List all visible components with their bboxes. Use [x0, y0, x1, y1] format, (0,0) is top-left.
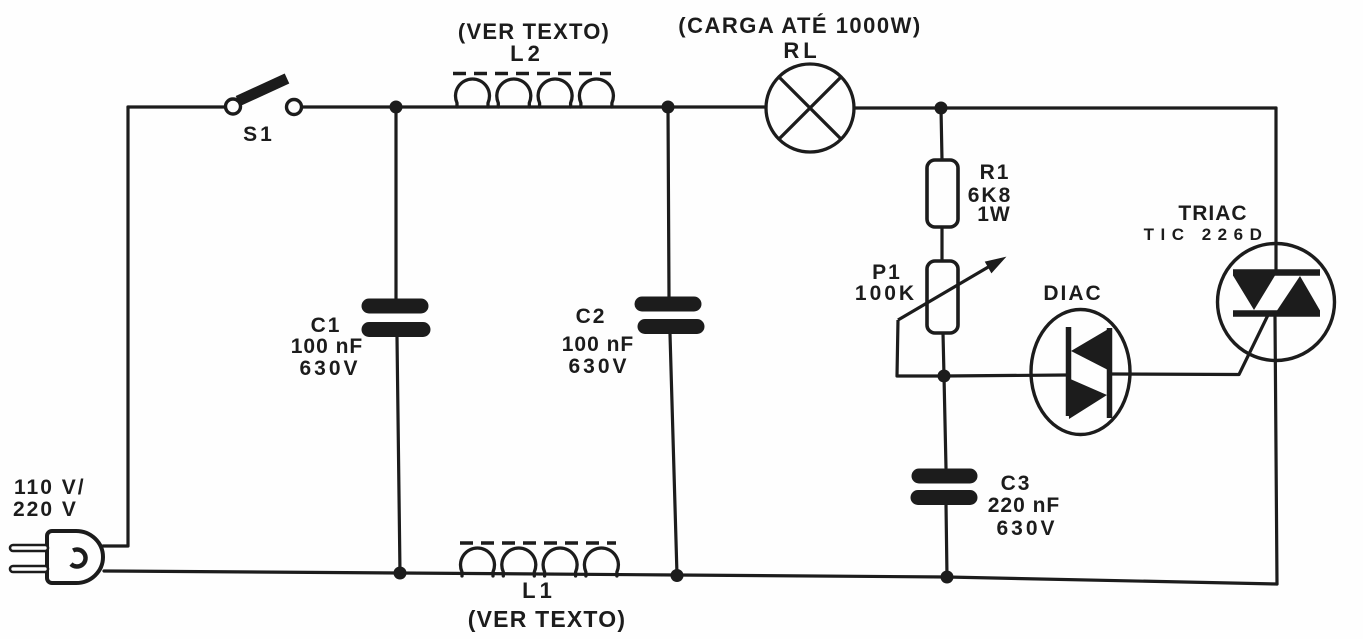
switch S1 right contact	[287, 100, 302, 115]
svg-text:C1: C1	[311, 314, 342, 337]
potentiometer P1 wiper arrow	[898, 258, 1005, 321]
wire right side MT1	[1275, 317, 1277, 584]
svg-text:100 nF: 100 nF	[562, 333, 635, 356]
switch S1 left contact	[226, 99, 241, 114]
triac Q1	[1218, 244, 1335, 361]
svg-text:C2: C2	[576, 305, 607, 328]
svg-text:1W: 1W	[977, 203, 1011, 226]
wire top rail	[128, 107, 1276, 108]
wire right side MT2	[1274, 108, 1277, 269]
lamp RL	[766, 64, 854, 152]
wire left side	[103, 107, 128, 546]
resistor R1 branch wire	[941, 108, 947, 577]
diac right electrode bar	[1107, 328, 1113, 418]
triac bottom bar	[1233, 310, 1320, 317]
wire diac to triac gate	[1112, 315, 1268, 375]
capacitor C2	[642, 304, 697, 327]
node dot R1 top	[935, 102, 948, 115]
node dot wiper junction	[938, 370, 951, 383]
resistor R1	[927, 160, 958, 227]
triac right triangle	[1277, 276, 1320, 311]
inductor L2	[453, 74, 613, 108]
node dot C2 bottom	[671, 569, 684, 582]
triac left triangle	[1233, 276, 1275, 311]
node dot C2 top	[662, 101, 675, 114]
diac D1	[1031, 310, 1130, 435]
svg-text:(VER TEXTO): (VER TEXTO)	[468, 606, 626, 632]
svg-text:C3: C3	[1001, 472, 1032, 495]
plug body	[47, 531, 103, 583]
switch S1	[226, 79, 302, 115]
svg-text:TRIAC: TRIAC	[1178, 202, 1247, 225]
node dot C1 top	[390, 101, 403, 114]
diac left electrode bar	[1066, 327, 1072, 416]
svg-text:220 V: 220 V	[13, 498, 78, 521]
potentiometer P1	[927, 261, 958, 333]
inductor L1 dashed core	[460, 541, 616, 545]
svg-text:220 nF: 220 nF	[988, 494, 1061, 517]
svg-text:R1: R1	[980, 161, 1011, 184]
svg-text:TIC 226D: TIC 226D	[1144, 225, 1269, 244]
svg-text:DIAC: DIAC	[1043, 282, 1102, 305]
svg-text:(CARGA ATÉ 1000W): (CARGA ATÉ 1000W)	[678, 13, 921, 38]
plug AC	[10, 531, 103, 583]
diac upper triangle	[1071, 328, 1110, 371]
plug prong upper	[10, 545, 48, 551]
node dot C3 bottom	[941, 571, 954, 584]
plug prong lower	[10, 566, 48, 572]
capacitor C2 branch wire	[668, 107, 677, 575]
svg-text:100 nF: 100 nF	[291, 335, 364, 358]
capacitor C3	[918, 476, 970, 498]
svg-text:L1: L1	[522, 578, 556, 603]
svg-text:S1: S1	[243, 123, 275, 146]
wire diac left	[944, 375, 1067, 376]
triac top bar	[1233, 269, 1320, 276]
inductor L1	[460, 543, 618, 576]
svg-text:L2: L2	[510, 41, 544, 66]
inductor L2 dashed core	[453, 72, 611, 76]
svg-text:P1: P1	[872, 261, 902, 284]
svg-text:630V: 630V	[996, 517, 1057, 540]
switch S1 lever	[238, 79, 287, 102]
diac lower triangle	[1068, 378, 1107, 419]
wire bottom rail	[104, 571, 1277, 584]
svg-text:110 V/: 110 V/	[14, 476, 86, 499]
svg-text:RL: RL	[783, 38, 820, 63]
svg-text:100K: 100K	[855, 282, 917, 305]
svg-text:630V: 630V	[568, 355, 629, 378]
potentiometer P1 wiper wire	[897, 320, 944, 376]
capacitor C1 branch wire	[396, 107, 400, 573]
svg-text:630V: 630V	[299, 357, 360, 380]
plug hook	[71, 550, 86, 567]
node dot C1 bottom	[394, 567, 407, 580]
capacitor C1	[369, 306, 423, 330]
